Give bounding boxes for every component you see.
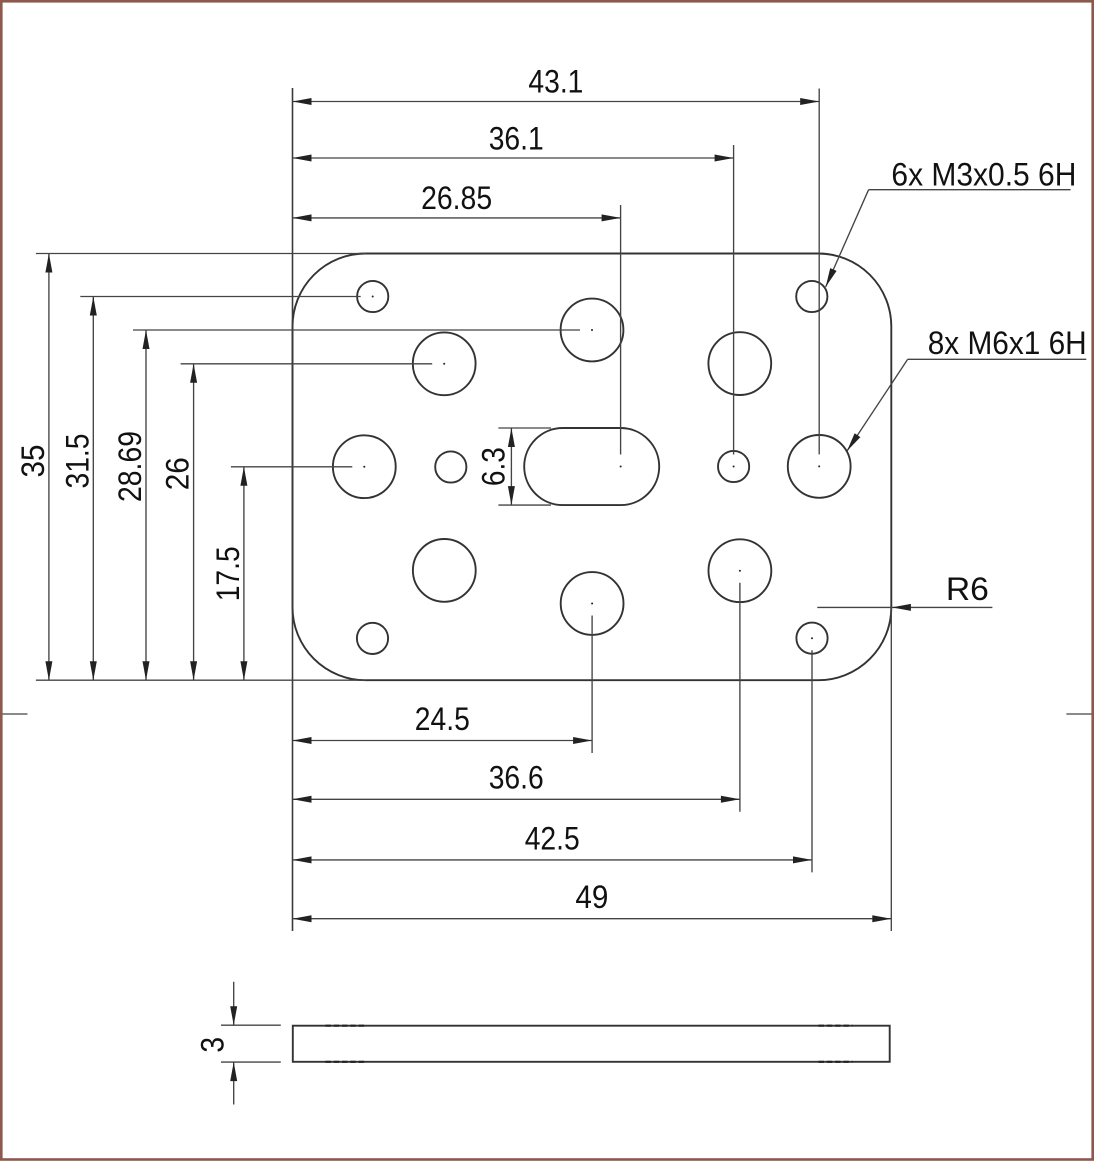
M6 hole H13 — [709, 539, 772, 602]
dimension 35 — [48, 254, 50, 681]
svg-text:26.85: 26.85 — [421, 180, 492, 216]
extension line y=466.8 (17.5 dim, to hole H10) — [231, 466, 352, 468]
dimension 31.5 — [92, 297, 94, 681]
dimension 6.3 — [510, 428, 512, 505]
extension line x=739.9 (36.6 dim, from hole H13) — [739, 583, 741, 812]
extension line bottom edge (left dims baseline) — [36, 679, 366, 681]
M6 hole H7 — [561, 299, 624, 362]
M3 hole H4 — [718, 451, 749, 482]
hidden thread dashes right top — [819, 1025, 853, 1027]
extension line y=296.5 (31.5 dim, to hole H1) — [80, 296, 360, 298]
dimension 24.5 — [293, 740, 593, 742]
extension lines for 3 dim — [221, 1024, 281, 1026]
M6 hole H14 — [561, 572, 624, 635]
leader 8x M6x1 6H — [908, 358, 1087, 360]
svg-text:6.3: 6.3 — [476, 447, 512, 486]
svg-text:49: 49 — [575, 879, 608, 915]
leader 6x M3x0.5 6H — [869, 189, 1071, 191]
slot (obround 6.3 wide) — [524, 428, 659, 505]
svg-text:17.5: 17.5 — [210, 546, 246, 601]
extension line x=592.1 (24.5 dim, from hole H14) — [591, 616, 593, 754]
svg-text:28.69: 28.69 — [112, 431, 148, 502]
hidden thread dashes left top — [325, 1025, 364, 1027]
M6 hole H9 — [708, 332, 771, 395]
extension line x=812 (42.5 dim, from hole H6) — [811, 650, 813, 872]
plate outline (top view, rounded rectangle 49x35 R6) — [293, 254, 892, 681]
svg-text:35: 35 — [15, 445, 51, 478]
svg-text:42.5: 42.5 — [525, 820, 580, 856]
leader R6 — [817, 606, 992, 608]
extension line left (x=292.5, full height) — [292, 88, 294, 931]
svg-text:24.5: 24.5 — [415, 701, 470, 737]
dimension 28.69 — [145, 330, 147, 680]
left edge centering tick — [3, 713, 28, 715]
M6 hole H8 — [413, 332, 476, 395]
extension line y=363.8 (26 dim, to hole H8) — [181, 363, 433, 365]
M3 hole H5 — [357, 623, 388, 654]
svg-text:26: 26 — [160, 457, 196, 490]
M3 hole H2 — [796, 281, 827, 312]
svg-text:36.1: 36.1 — [489, 121, 544, 157]
hidden thread dashes right bottom — [819, 1061, 853, 1063]
dimension 26 — [193, 364, 195, 680]
dimension 26.85 — [293, 217, 621, 219]
dimension 42.5 — [293, 859, 813, 861]
svg-text:8x M6x1 6H: 8x M6x1 6H — [928, 325, 1087, 361]
extension line top edge (35 dim) — [36, 253, 366, 255]
svg-text:3: 3 — [194, 1037, 230, 1053]
extension line y=330 (28.69 dim, to hole H7) — [133, 329, 580, 331]
svg-text:43.1: 43.1 — [528, 64, 583, 100]
dimension 36.6 — [293, 798, 740, 800]
dimension 49 — [293, 918, 892, 920]
svg-text:R6: R6 — [946, 571, 989, 607]
dimension 36.1 — [293, 157, 734, 159]
M6 hole H11 — [788, 435, 851, 498]
right edge centering tick — [1066, 713, 1091, 715]
M6 hole H12 — [413, 539, 476, 602]
M6 hole H10 — [333, 435, 396, 498]
extension line x=891.3 right edge (49 dim) — [890, 607, 892, 931]
M3 hole H6 — [796, 623, 827, 654]
dimension 43.1 — [293, 101, 820, 103]
hidden thread dashes left bottom — [325, 1061, 364, 1063]
extension line x=819.2 (43.1 dim, to hole H11) — [818, 89, 820, 455]
svg-text:31.5: 31.5 — [59, 434, 95, 489]
feature center dots — [372, 296, 374, 298]
extension lines for 6.3 dim — [498, 427, 551, 429]
M3 hole H1 — [357, 281, 388, 312]
dimension 17.5 — [243, 467, 245, 680]
extension line x=733.6 (36.1 dim, to hole H4) — [733, 145, 735, 455]
dimension 3 (thickness) — [233, 982, 235, 1025]
M3 hole H3 — [435, 451, 466, 482]
side view plate outline (3mm thickness) — [293, 1026, 890, 1062]
svg-text:36.6: 36.6 — [489, 760, 544, 796]
extension line x=620.65 (26.85 dim, to slot right arc center) — [620, 205, 622, 455]
svg-text:6x M3x0.5 6H: 6x M3x0.5 6H — [891, 157, 1076, 193]
